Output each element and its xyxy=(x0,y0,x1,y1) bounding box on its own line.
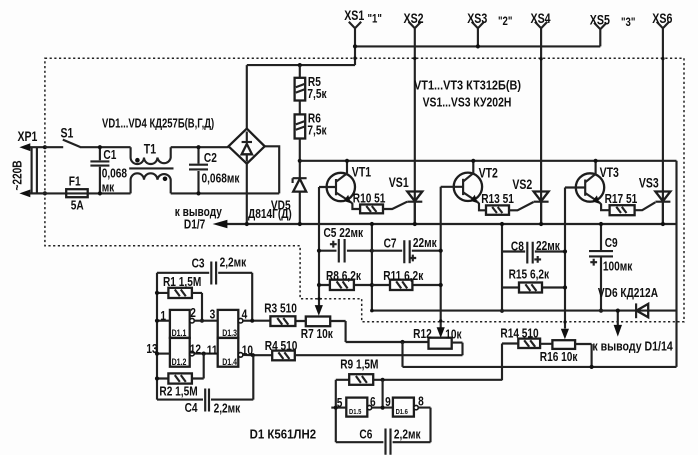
capacitor C5 22mk xyxy=(319,226,372,263)
fuse F1 5A xyxy=(29,174,131,213)
node x372 on bus xyxy=(370,222,374,226)
node pin5 junction xyxy=(334,406,338,410)
svg-text:мк: мк xyxy=(102,180,115,194)
resistor R8 6,2k xyxy=(319,269,372,290)
svg-text:22мк: 22мк xyxy=(413,236,437,250)
svg-text:~220В: ~220В xyxy=(10,160,24,190)
switch S1 xyxy=(45,125,100,147)
zener diode VD5 Д814Г xyxy=(248,161,307,224)
potentiometer R12 10k with wiper arrow xyxy=(413,327,462,355)
svg-text:XP1: XP1 xyxy=(17,129,37,145)
svg-text:D1.4: D1.4 xyxy=(222,357,237,367)
svg-text:XS1: XS1 xyxy=(344,8,364,24)
svg-text:VT3: VT3 xyxy=(600,165,620,181)
node R5 top xyxy=(298,63,302,67)
svg-text:D1.6: D1.6 xyxy=(396,409,409,417)
node pin6-9 junction xyxy=(381,406,385,410)
connector XS2 xyxy=(404,10,424,224)
wire VT2 base node vertical xyxy=(440,187,442,328)
wire T1 to C2 bottom xyxy=(171,146,280,193)
node pin13 junction xyxy=(155,352,159,356)
svg-text:С6: С6 xyxy=(359,427,372,441)
node C8 right xyxy=(563,249,567,253)
svg-text:C5 22мк: C5 22мк xyxy=(324,226,364,240)
node pin12-11 R2 junction xyxy=(202,352,206,356)
resistor R15 6,2k xyxy=(502,267,565,292)
resistor R10 51 xyxy=(353,191,386,213)
svg-text:R1 1,5М: R1 1,5М xyxy=(163,275,201,289)
svg-text:F1: F1 xyxy=(69,174,81,188)
wire XS1 drop to supply line xyxy=(247,65,355,129)
transistor VT1 xyxy=(319,161,371,209)
node C9 top on bus xyxy=(599,222,603,226)
wire C3 right vertical xyxy=(251,273,253,321)
svg-text:XS6: XS6 xyxy=(652,10,672,26)
svg-text:10к: 10к xyxy=(445,327,461,341)
svg-text:VD6 КД212А: VD6 КД212А xyxy=(598,286,659,300)
svg-text:7,5к: 7,5к xyxy=(307,123,326,137)
node x502 on lower line xyxy=(500,309,504,313)
svg-text:"1": "1" xyxy=(368,12,382,25)
connector XS6 xyxy=(652,10,672,224)
node C5 left xyxy=(317,249,321,253)
svg-text:R15 6,2к: R15 6,2к xyxy=(509,267,550,281)
svg-text:C8: C8 xyxy=(511,239,524,253)
svg-text:0,068мк: 0,068мк xyxy=(202,171,240,185)
svg-text:"3": "3" xyxy=(621,16,635,29)
dashed enclosure border xyxy=(45,58,684,322)
svg-text:D1.5: D1.5 xyxy=(349,409,362,417)
wire arrow to D1/14 xyxy=(592,311,673,354)
node C7 right xyxy=(439,249,443,253)
transformer T1 xyxy=(129,141,173,193)
wire right edge vertical rail to bottom xyxy=(675,161,677,367)
wire R9 left vertical xyxy=(335,380,337,442)
svg-text:XS5: XS5 xyxy=(590,12,610,28)
svg-text:8: 8 xyxy=(418,395,424,409)
node VD5-bus xyxy=(298,222,302,226)
svg-text:R10 51: R10 51 xyxy=(353,191,386,205)
node VT3 collector on rail xyxy=(594,159,598,163)
connector XP1 mains plug xyxy=(17,129,44,198)
thyristor VS1 xyxy=(383,175,422,224)
svg-text:к выводу D1/14: к выводу D1/14 xyxy=(592,338,673,353)
svg-text:C7: C7 xyxy=(384,236,397,250)
thyristor VS3 xyxy=(635,175,671,224)
capacitor C4 2,2mk xyxy=(157,355,253,416)
svg-text:C1: C1 xyxy=(103,148,116,162)
svg-text:2,2мк: 2,2мк xyxy=(394,427,421,441)
wire common vertical x502 xyxy=(501,224,503,311)
capacitor C3 2,2mk xyxy=(157,255,252,284)
node bus-XS3 xyxy=(476,44,480,48)
svg-text:R12: R12 xyxy=(413,327,432,341)
inverter D1.2 xyxy=(157,338,218,367)
node x372 corner on lower line xyxy=(370,309,374,313)
svg-text:2,2мк: 2,2мк xyxy=(220,255,247,269)
wire pin6/9 vertical xyxy=(382,380,384,408)
svg-text:VD1...VD4 КД257Б(В,Г,Д): VD1...VD4 КД257Б(В,Г,Д) xyxy=(102,117,214,131)
inverter D1.6 xyxy=(393,398,431,443)
resistor R1 1,5M xyxy=(157,275,202,321)
svg-text:XS2: XS2 xyxy=(404,10,424,26)
svg-text:5А: 5А xyxy=(71,199,84,213)
svg-text:C3: C3 xyxy=(192,256,205,270)
svg-text:VS3: VS3 xyxy=(639,175,659,191)
capacitor C2 0,068mk xyxy=(189,147,240,193)
diode VD6 КД212А xyxy=(598,286,659,318)
svg-text:1: 1 xyxy=(160,309,166,323)
wire VT1 base node vertical xyxy=(318,187,320,306)
svg-text:VS2: VS2 xyxy=(512,177,532,193)
resistor R17 51 xyxy=(605,192,638,215)
svg-text:R16 10к: R16 10к xyxy=(540,350,578,364)
svg-text:C9: C9 xyxy=(605,236,618,250)
node C2 top xyxy=(196,145,200,149)
inverter D1.4 xyxy=(218,338,253,367)
capacitor C6 2,2mk xyxy=(336,427,431,455)
node VD5 rail junction xyxy=(298,159,302,163)
thyristor VS2 xyxy=(509,177,549,224)
node R8-R11 junction xyxy=(370,283,374,287)
node pin10 junction C4 xyxy=(251,353,255,357)
svg-text:7,5к: 7,5к xyxy=(307,87,326,101)
potentiometer R7 10k with wiper arrow xyxy=(295,305,345,342)
wire lamp bus XS1-XS3-XS5 xyxy=(355,45,600,47)
svg-text:R8 6,2к: R8 6,2к xyxy=(326,269,361,283)
node R9 right xyxy=(381,378,385,382)
node C5 right xyxy=(370,249,374,253)
svg-text:D1 К561ЛН2: D1 К561ЛН2 xyxy=(250,427,317,442)
svg-text:VT2: VT2 xyxy=(479,165,499,181)
wire left oscillator vertical x157 xyxy=(156,273,158,400)
node R15 right xyxy=(563,285,567,289)
svg-text:R14 510: R14 510 xyxy=(500,327,538,341)
svg-text:VT1: VT1 xyxy=(352,164,372,180)
node C9 bottom xyxy=(599,309,603,313)
node pin4 junction C3 xyxy=(250,319,254,323)
connector XS1 xyxy=(344,8,364,65)
node VT1 collector on rail xyxy=(345,159,349,163)
inverter D1.5 xyxy=(331,398,393,417)
svg-text:0,068: 0,068 xyxy=(102,166,128,180)
common cathode bus with arrow to D1/7 xyxy=(175,205,677,232)
node R1 right on pin2 wire xyxy=(200,319,204,323)
node D1/14 tap xyxy=(616,309,620,313)
blob VT3 node crossing dashed border xyxy=(563,320,566,323)
resistor R14 510 xyxy=(500,327,540,348)
wire lower common line y310 xyxy=(372,310,677,312)
svg-text:4: 4 xyxy=(242,307,248,321)
svg-text:12: 12 xyxy=(190,342,202,356)
svg-text:R9 1,5М: R9 1,5М xyxy=(340,357,378,371)
svg-text:VT1...VT3 КТ312Б(В): VT1...VT3 КТ312Б(В) xyxy=(414,78,521,93)
svg-text:VS1...VS3 КУ202Н: VS1...VS3 КУ202Н xyxy=(423,95,512,109)
node bridge-bus xyxy=(245,222,249,226)
svg-text:"2": "2" xyxy=(498,15,512,28)
wire T1 to C2 top xyxy=(171,146,229,148)
svg-text:6: 6 xyxy=(370,395,376,409)
wire x402 vertical to y367 xyxy=(401,342,403,367)
resistor R6 7,5k xyxy=(295,101,327,139)
svg-text:2: 2 xyxy=(190,306,196,320)
resistor R9 1,5M xyxy=(336,357,502,385)
wire bridge bottom to common bus xyxy=(246,164,248,224)
svg-text:Д814Г(Д): Д814Г(Д) xyxy=(248,207,292,221)
svg-text:100мк: 100мк xyxy=(603,260,633,274)
svg-text:C4: C4 xyxy=(185,401,198,415)
node XP1 bottom on border xyxy=(43,191,47,195)
wire VT3 base node vertical xyxy=(564,188,566,329)
node VS1 cathode bus xyxy=(413,222,417,226)
resistor R5 7,5k xyxy=(295,65,327,101)
svg-text:Т1: Т1 xyxy=(144,141,157,157)
node VS2 cathode bus xyxy=(539,222,543,226)
svg-text:R4 510: R4 510 xyxy=(265,339,298,353)
transistor VT2 xyxy=(441,161,498,211)
node R1 left xyxy=(155,291,159,295)
node C1 bottom xyxy=(98,191,102,195)
svg-text:11: 11 xyxy=(207,343,218,357)
svg-text:2,2мк: 2,2мк xyxy=(214,401,241,415)
blob VT1 node crossing dashed border xyxy=(317,297,320,300)
svg-text:3: 3 xyxy=(210,307,216,321)
svg-text:R3 510: R3 510 xyxy=(264,302,297,316)
node bus-XS1 xyxy=(353,44,357,48)
svg-text:R7 10к: R7 10к xyxy=(301,327,333,341)
collector supply rail xyxy=(300,160,677,162)
wire R6 to rail xyxy=(299,139,301,161)
connector XS5 xyxy=(590,12,610,46)
capacitor C9 100mk xyxy=(589,224,633,311)
resistor R13 51 xyxy=(481,192,514,215)
capacitor C1 0,068mk xyxy=(90,147,127,194)
svg-text:C2: C2 xyxy=(204,151,217,165)
connector XS3 xyxy=(467,10,487,46)
resistor R11 6,2k xyxy=(372,269,441,290)
wire common vertical x372 xyxy=(371,224,373,311)
node R12 left junction xyxy=(400,340,404,344)
svg-text:R11 6,2к: R11 6,2к xyxy=(383,269,423,283)
node VT2 collector on rail xyxy=(471,159,475,163)
resistor R3 510 xyxy=(252,302,297,326)
svg-text:R13 51: R13 51 xyxy=(481,192,514,206)
node pin1 junction xyxy=(155,319,159,323)
node R16 right on y367 xyxy=(590,365,594,369)
svg-text:R2 1,5М: R2 1,5М xyxy=(159,384,197,398)
node C1 top xyxy=(98,145,102,149)
svg-text:D1.3: D1.3 xyxy=(222,328,237,338)
wire R14 left vertical to R9 line xyxy=(501,344,503,381)
svg-text:S1: S1 xyxy=(60,125,73,141)
connector XS4 xyxy=(531,10,551,224)
wire top mains S1 to C1 to T1 xyxy=(100,146,131,148)
blob VT2 node crossing dashed border xyxy=(439,319,442,322)
svg-text:22мк: 22мк xyxy=(536,239,560,253)
inverter D1.3 xyxy=(218,310,253,338)
node R11 right xyxy=(439,283,443,287)
node x502 on bus xyxy=(500,222,504,226)
small blobs where wires cross dashed border xyxy=(353,57,356,60)
svg-text:D1.1: D1.1 xyxy=(172,328,187,338)
svg-text:D1/7: D1/7 xyxy=(184,217,205,231)
svg-text:R17 51: R17 51 xyxy=(605,192,638,206)
node XP1 top on border xyxy=(43,145,47,149)
wire lower link line y367 xyxy=(403,366,677,368)
wire R4 output line y355 xyxy=(295,354,463,356)
svg-text:D1.2: D1.2 xyxy=(172,357,187,367)
node R2 left xyxy=(155,376,159,380)
transistor VT3 xyxy=(565,161,619,210)
resistor R2 1,5M xyxy=(157,354,204,399)
capacitor C7 22mk xyxy=(372,236,441,263)
svg-text:XS4: XS4 xyxy=(531,10,551,26)
inverter D1.1 xyxy=(157,310,218,338)
bridge rectifier VD1-VD4 xyxy=(229,129,265,164)
svg-text:XS3: XS3 xyxy=(467,10,487,26)
potentiometer R16 10k with wiper arrow xyxy=(540,329,592,367)
svg-text:9: 9 xyxy=(385,395,391,409)
node R8 left / wiper line xyxy=(317,283,321,287)
capacitor C8 22mk xyxy=(502,239,565,264)
wire R7 output line y342 xyxy=(346,341,429,343)
node C2 bottom xyxy=(196,191,200,195)
node VS3 cathode bus xyxy=(661,222,665,226)
resistor R4 510 xyxy=(253,339,298,361)
svg-text:VS1: VS1 xyxy=(389,175,409,191)
